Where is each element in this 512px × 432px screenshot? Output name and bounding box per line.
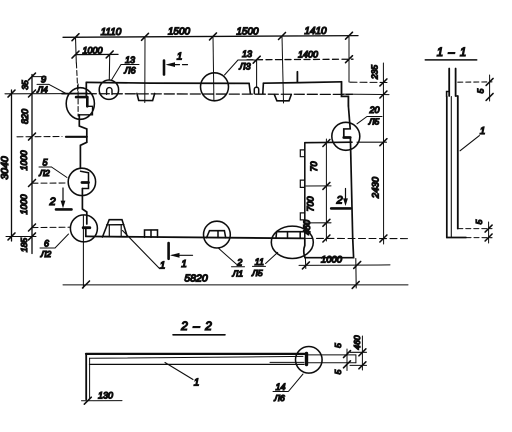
left edge lower run — [82, 189, 86, 225]
section 2-2 slab second line — [90, 356, 304, 358]
svg-text:11: 11 — [255, 257, 264, 267]
tick s1 y82 — [486, 78, 493, 85]
section 1-1 bottom dim ext inner — [458, 228, 492, 230]
extension to loop — [256, 60, 258, 88]
svg-text:Л3: Л3 — [238, 62, 250, 72]
section 1-1 top dim line — [489, 75, 491, 101]
thick bar inside circle C3 — [82, 181, 89, 184]
recess left vertical — [304, 143, 306, 239]
svg-text:Л4: Л4 — [36, 85, 48, 95]
tick 1000br left — [302, 262, 309, 269]
rib trapezoid inner box — [109, 225, 121, 237]
leader 9/L4 — [49, 84, 66, 93]
svg-text:20: 20 — [368, 105, 379, 115]
section 2-2 left leg inner — [89, 358, 91, 398]
ledge line along top edge — [86, 93, 352, 96]
lifting loop in top edge notch — [254, 87, 258, 94]
extension through C1 — [77, 84, 79, 116]
section 1-1 title underline — [425, 59, 476, 61]
small bump with middle tick — [145, 230, 158, 237]
svg-text:1110: 1110 — [101, 27, 122, 38]
svg-text:460: 460 — [352, 335, 362, 349]
svg-text:6: 6 — [44, 239, 49, 249]
extension right y82.3 — [350, 81, 389, 83]
svg-text:Л2: Л2 — [38, 168, 50, 178]
svg-text:Л5: Л5 — [251, 268, 263, 278]
svg-text:Л2: Л2 — [40, 249, 52, 259]
tick s2 y364.3 — [344, 361, 351, 368]
end rib thick bar inside C9 — [305, 354, 308, 365]
section mark 1 bottom arrow — [172, 254, 193, 256]
section 1-1 bottom dim ext outer — [466, 237, 492, 239]
svg-text:5: 5 — [333, 369, 343, 374]
svg-text:2: 2 — [48, 196, 55, 208]
notch3 in ledge — [274, 94, 291, 100]
callout circle C9 — [296, 347, 323, 374]
callout circle C5 — [201, 73, 229, 101]
section mark 2 right bar — [331, 207, 350, 210]
tick s2 y352.3 — [359, 349, 366, 356]
dimension line 1400 second row right — [247, 58, 353, 61]
extension line x282 — [282, 36, 284, 103]
leader 6/L2 — [55, 234, 69, 248]
section 2-2 slab bottom line — [90, 363, 305, 365]
tick top x75 — [72, 34, 79, 41]
extension line x213 — [212, 36, 215, 100]
svg-text:820: 820 — [20, 109, 30, 124]
tick s1 y228.6 — [485, 225, 492, 232]
recess tab 1 — [300, 150, 305, 157]
left outer dimension line 3040 — [11, 90, 13, 241]
section 2-2 left leg outer — [85, 354, 87, 400]
section 1-1 wall step — [447, 92, 458, 97]
section 2-2 right dim line 5/5 — [346, 349, 348, 371]
panel top edge right part — [263, 82, 341, 83]
callout circle C4 — [70, 215, 97, 242]
extension right edge down — [355, 259, 357, 289]
corner step inside circle C1 vertical — [86, 97, 89, 106]
section mark 1 top bar — [163, 61, 166, 75]
tick 1400 left — [253, 56, 260, 63]
leader 20/L5 — [357, 117, 367, 124]
extension recess y223 — [306, 222, 331, 224]
tick s2 y365.3 — [359, 362, 366, 369]
notch2 right wall — [262, 83, 265, 93]
tick s1 y237.5 — [485, 234, 492, 241]
rib trapezoid bump — [102, 220, 127, 238]
notch1 in ledge — [137, 93, 155, 100]
svg-text:130: 130 — [98, 391, 113, 401]
section mark 2 right arrow — [345, 189, 347, 200]
tick s2 y354 — [344, 351, 351, 358]
tick right y82.4 — [380, 79, 387, 86]
extension top corner to left — [5, 93, 62, 95]
dimension line top row — [63, 36, 358, 38]
section mark 1 top arrow — [168, 64, 188, 66]
section 2-2 title underline — [173, 334, 225, 336]
tick left y136.6 — [29, 133, 36, 140]
section 1-1 wall outer face — [446, 97, 448, 238]
left edge tab inside circle C3 — [81, 171, 89, 188]
extension s2 y365.4 — [350, 364, 367, 366]
tick 1000br right — [354, 261, 361, 268]
extension y136.6 — [17, 136, 62, 138]
section 2-2 end dim line 460 — [361, 336, 363, 370]
thick bar inside circle C4 — [83, 226, 90, 229]
extension from 1000 to loop circle — [108, 54, 110, 80]
tick top x282 — [279, 33, 286, 40]
callout circle C2 loop — [99, 80, 118, 99]
svg-text:700: 700 — [306, 196, 316, 211]
tick 1000 right — [106, 51, 113, 58]
small stub on top edge x297 — [296, 72, 298, 82]
right dim column — [382, 63, 384, 244]
tick recess y143 — [323, 140, 330, 147]
extension step corner down — [304, 259, 306, 269]
extension y183 — [32, 182, 68, 184]
leader 14/L6 — [289, 374, 304, 391]
svg-text:2: 2 — [335, 195, 342, 207]
svg-text:1: 1 — [194, 378, 200, 389]
callout ellipse C8 — [271, 226, 313, 258]
slab end thin bottom — [308, 362, 356, 364]
callout circle C6 — [332, 122, 360, 150]
svg-text:35: 35 — [20, 80, 30, 90]
svg-text:5: 5 — [333, 343, 343, 348]
tick recess y186 — [323, 182, 330, 189]
leader item 1 section 2-2 — [165, 363, 193, 380]
tick 1400 right — [346, 56, 353, 63]
extension s2 y352.3 — [350, 351, 367, 353]
tick recess y223 — [323, 219, 330, 226]
notch2 left wall — [249, 83, 250, 93]
svg-text:5820: 5820 — [184, 273, 208, 285]
tick 130 — [84, 397, 91, 404]
extension right y142.2 — [357, 141, 387, 143]
bottom right rounded step — [304, 238, 305, 257]
dimension 130 — [82, 400, 123, 402]
leader item 1 plan — [123, 231, 160, 269]
recess dim line — [325, 139, 327, 241]
section 1-1 wall top part — [448, 69, 450, 97]
svg-text:5: 5 — [476, 88, 486, 93]
tick left y227.5 — [29, 224, 36, 231]
tick 5820 right — [352, 281, 359, 288]
section 1-1 bottom dim line — [488, 222, 490, 243]
corner step inside circle C1 horizontal — [76, 96, 87, 99]
section 1-1 wall mid line — [450, 97, 452, 238]
svg-text:3040: 3040 — [0, 156, 11, 180]
dimension 1000 bottom right — [299, 264, 390, 267]
extension y76.6 — [32, 76, 46, 78]
tick s1 y97 — [486, 93, 493, 100]
left edge run with jogs — [79, 115, 87, 169]
recess tab 2 — [300, 180, 305, 187]
svg-text:1: 1 — [181, 259, 187, 270]
section 1-1 wall inner face — [457, 96, 459, 229]
tick left y236.4 — [29, 233, 36, 240]
extension line x349 — [348, 36, 350, 82]
thick extension bar at panel edge y136.8 — [66, 136, 87, 138]
leader 13/L6 — [112, 65, 122, 81]
section mark 2 left bar — [56, 208, 72, 211]
dimension 5820 bottom — [63, 284, 408, 286]
tick top x213 — [210, 33, 217, 40]
slab end thin top — [308, 354, 356, 356]
bump inside circle C7 — [207, 231, 226, 238]
panel top-right corner step — [342, 82, 349, 106]
section 1-1 top dim ext — [458, 81, 492, 83]
panel bottom edge — [86, 236, 305, 238]
svg-text:1410: 1410 — [304, 26, 327, 37]
svg-text:Л5: Л5 — [368, 117, 380, 127]
extension line x75 — [75, 37, 78, 63]
left inner dimension line — [31, 75, 33, 254]
dimension line 1000 second row — [76, 53, 119, 55]
left edge bottom piece — [85, 229, 87, 236]
svg-text:1000: 1000 — [19, 194, 29, 214]
tick 3040 bottom — [8, 233, 15, 240]
section 2-2 slab inner line right — [270, 361, 304, 363]
right edge rebate thick bar — [344, 136, 350, 139]
tick top x145 — [142, 33, 149, 40]
leader 5/L2 — [52, 167, 68, 178]
svg-text:5: 5 — [474, 219, 484, 224]
svg-text:Л6: Л6 — [123, 66, 135, 76]
svg-text:1000: 1000 — [321, 255, 343, 266]
extension left edge down — [82, 215, 84, 288]
svg-text:13: 13 — [242, 49, 252, 59]
right edge lower run — [305, 139, 354, 258]
callout circle C1 — [66, 88, 94, 120]
panel left edge upper corner — [85, 82, 87, 97]
panel right edge — [344, 106, 350, 136]
tick 1000 left — [72, 51, 79, 58]
tick recess y238.5 — [323, 235, 330, 242]
tick 5820 left — [83, 281, 90, 288]
extension bottom y238.5 — [306, 237, 408, 239]
svg-text:14: 14 — [275, 382, 285, 392]
svg-text:Л1: Л1 — [232, 268, 244, 278]
tick top x349 — [346, 32, 353, 39]
svg-text:70: 70 — [309, 161, 319, 171]
panel top edge left part — [86, 82, 249, 83]
section mark 2 left arrow — [62, 188, 64, 203]
svg-text:185: 185 — [19, 238, 29, 252]
svg-text:2 – 2: 2 – 2 — [180, 319, 213, 333]
svg-text:1500: 1500 — [236, 26, 259, 37]
slab end cap — [355, 355, 357, 363]
svg-text:1400: 1400 — [298, 50, 318, 60]
callout circle C7 — [204, 221, 231, 248]
extension bottom edge to left — [6, 236, 36, 238]
svg-text:1: 1 — [177, 52, 183, 63]
callout circle C3 — [68, 168, 95, 195]
tick left y183 — [29, 180, 36, 187]
wide bump bottom right — [276, 232, 305, 238]
svg-text:1: 1 — [160, 261, 166, 272]
svg-text:1: 1 — [480, 126, 486, 137]
section mark 1 bottom bar — [167, 243, 170, 259]
svg-text:1 – 1: 1 – 1 — [437, 47, 468, 59]
extension right y94.4 — [343, 93, 389, 96]
tick left y93.5 — [29, 90, 36, 97]
svg-text:5: 5 — [42, 158, 48, 168]
recess top line — [305, 141, 352, 144]
svg-text:450: 450 — [302, 220, 312, 235]
tick 3040 top — [8, 90, 15, 97]
svg-text:Л6: Л6 — [273, 393, 285, 403]
tick right y238.5 — [380, 235, 387, 242]
svg-text:235: 235 — [370, 65, 380, 80]
svg-text:2430: 2430 — [370, 176, 381, 199]
section 1-1 leader 1 — [460, 136, 479, 151]
tick right y142.2 — [380, 139, 387, 146]
svg-text:1000: 1000 — [82, 45, 102, 55]
svg-text:2: 2 — [236, 257, 242, 267]
recess tab 3 — [300, 213, 305, 220]
lifting loop inside C2 — [107, 88, 112, 95]
leader 13/L3 — [225, 60, 239, 75]
svg-text:1000: 1000 — [19, 150, 29, 170]
callout label 2/L1 — [219, 248, 237, 264]
extension y227.5 — [32, 226, 70, 228]
svg-text:1500: 1500 — [168, 27, 191, 38]
svg-text:13: 13 — [125, 55, 135, 65]
corner step small — [79, 106, 92, 115]
section 1-1 bottom cap — [447, 237, 466, 239]
extension recess y186 — [306, 185, 331, 187]
leader 11/L5 — [266, 252, 278, 263]
section 2-2 slab top line — [86, 353, 306, 355]
tick right y94.5 — [380, 91, 387, 98]
extension line x145 — [144, 37, 146, 103]
tick left y76.6 — [29, 73, 36, 80]
